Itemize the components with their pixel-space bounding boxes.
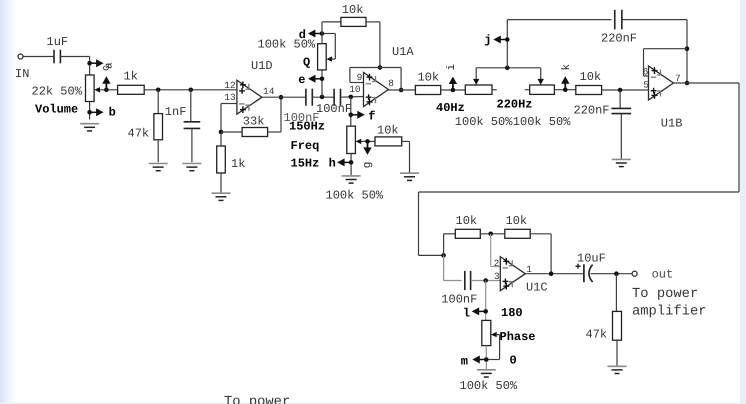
svg-text:amplifier: amplifier [632, 305, 707, 320]
svg-text:g: g [362, 162, 374, 169]
svg-text:U1C: U1C [526, 280, 548, 294]
svg-text:22k 50%: 22k 50% [32, 84, 83, 98]
svg-text:100k 50%: 100k 50% [258, 38, 316, 52]
node i [451, 88, 456, 93]
svg-text:1k: 1k [231, 157, 245, 171]
wire [615, 274, 617, 312]
capacitor 1nF [184, 121, 201, 123]
resistor 10k [375, 137, 402, 146]
node a [87, 61, 92, 66]
input terminal IN [18, 54, 23, 59]
capacitor 100nF [333, 89, 335, 106]
wire return [738, 83, 740, 192]
node l [483, 309, 488, 314]
wire output U1D [262, 96, 306, 98]
wire [554, 89, 575, 91]
node c [104, 88, 109, 93]
svg-text:IN: IN [15, 67, 29, 81]
svg-text:220nF: 220nF [601, 32, 637, 46]
wire [89, 57, 91, 76]
node [279, 95, 284, 100]
resistor 1k [217, 146, 226, 173]
svg-text:1uF: 1uF [47, 35, 69, 49]
resistor 10k [505, 229, 530, 238]
potentiometer 40Hz 100k 50% [465, 85, 492, 94]
svg-text:Q: Q [303, 55, 310, 69]
node [320, 95, 325, 100]
wire [268, 131, 281, 133]
wire [530, 233, 551, 235]
wire [620, 114, 622, 159]
svg-text:l: l [463, 306, 470, 320]
resistor 10k [576, 86, 602, 95]
node [618, 88, 623, 93]
svg-text:220nF: 220nF [574, 103, 610, 117]
svg-text:out: out [652, 268, 674, 282]
svg-text:180: 180 [501, 306, 523, 320]
resistor 10k [455, 229, 480, 238]
wire [443, 234, 445, 256]
wire [157, 140, 159, 162]
node d [320, 31, 325, 36]
svg-text:150Hz: 150Hz [289, 120, 325, 134]
node [549, 271, 554, 276]
node [685, 81, 690, 86]
wire [591, 273, 633, 275]
resistor 10k [415, 86, 440, 95]
node [488, 232, 493, 237]
svg-text:2: 2 [494, 258, 500, 269]
svg-text:10k: 10k [377, 124, 399, 138]
capacitor 1uF [53, 50, 55, 64]
resistor 1k [118, 85, 145, 94]
svg-text:10k: 10k [342, 3, 364, 17]
wire [280, 97, 282, 132]
node [399, 88, 404, 93]
ground [608, 366, 627, 373]
wire pin13 [221, 103, 237, 105]
svg-text:40Hz: 40Hz [436, 101, 465, 115]
svg-text:10k: 10k [506, 214, 528, 228]
capacitor 100nF [305, 89, 307, 106]
node g [365, 139, 370, 144]
wire feedback U1B [644, 75, 649, 77]
node b [87, 110, 92, 115]
resistor 33k [242, 128, 268, 137]
ground [149, 164, 168, 171]
svg-text:U1A: U1A [392, 45, 414, 59]
svg-text:100k 50%: 100k 50% [460, 379, 518, 393]
node [189, 88, 194, 93]
svg-text:13: 13 [224, 92, 236, 103]
wire [191, 128, 193, 162]
potentiometer Volume 22k 50% [86, 75, 95, 102]
node [156, 88, 161, 93]
ground [612, 159, 631, 166]
node f [349, 113, 354, 118]
svg-text:h: h [329, 156, 336, 170]
wire wiper [332, 58, 336, 60]
node m [484, 357, 489, 362]
wire [602, 89, 649, 91]
wire [190, 90, 192, 122]
wire [220, 132, 222, 146]
ground [212, 193, 231, 200]
ground [477, 370, 496, 377]
wire [441, 89, 466, 91]
svg-text:100k 50%: 100k 50% [326, 188, 384, 202]
capacitor 100nF [464, 271, 466, 290]
svg-text:c: c [102, 65, 113, 71]
wire top [507, 19, 611, 21]
svg-text:k: k [561, 64, 573, 71]
wire [485, 346, 487, 369]
svg-text:0: 0 [510, 353, 517, 367]
wire [350, 154, 352, 176]
node [483, 278, 488, 283]
svg-text:47k: 47k [128, 126, 150, 140]
potentiometer Freq 100k 50% [347, 126, 356, 153]
svg-text:10k: 10k [456, 214, 478, 228]
wire [100, 89, 118, 91]
wire [350, 97, 352, 126]
node [349, 95, 354, 100]
op-amp U1A [364, 73, 389, 107]
svg-text:To power: To power [224, 395, 290, 404]
svg-text:Freq: Freq [291, 139, 320, 153]
wire [506, 20, 508, 68]
potentiometer Q 100k 50% [318, 44, 327, 70]
node [614, 271, 619, 276]
svg-text:7: 7 [675, 73, 681, 84]
wire [443, 255, 445, 280]
node j [505, 37, 510, 42]
svg-text:1nF: 1nF [165, 105, 187, 119]
svg-text:8: 8 [388, 78, 394, 89]
wire [144, 89, 237, 91]
svg-text:100k 50%: 100k 50% [455, 115, 513, 129]
svg-text:14: 14 [263, 86, 275, 97]
wire [220, 173, 222, 193]
svg-text:j: j [484, 33, 491, 47]
wire [221, 131, 242, 133]
node k [563, 87, 568, 92]
wire [471, 280, 501, 282]
svg-text:10: 10 [349, 84, 361, 95]
svg-text:100nF: 100nF [316, 102, 352, 116]
wire [23, 56, 54, 58]
svg-text:220Hz: 220Hz [497, 97, 533, 111]
node [219, 130, 224, 135]
wire [220, 104, 222, 133]
svg-text:d: d [299, 28, 306, 42]
wire feedback U1A [350, 82, 364, 84]
svg-text:f: f [368, 109, 375, 123]
wire [157, 90, 159, 114]
ground [182, 164, 201, 171]
potentiometer 220Hz 100k 50% [530, 85, 555, 94]
svg-text:33k: 33k [243, 115, 265, 129]
svg-text:e: e [298, 73, 305, 87]
svg-text:b: b [109, 106, 116, 120]
potentiometer Phase 100k 50% [482, 320, 491, 345]
wire [60, 56, 89, 58]
wire [622, 19, 687, 21]
wire output U1A [389, 89, 416, 91]
wire wiper [361, 140, 375, 142]
node e [320, 77, 325, 82]
wire [312, 96, 334, 98]
node [505, 66, 510, 71]
svg-text:10uF: 10uF [577, 252, 606, 266]
wire [619, 90, 621, 109]
svg-text:U1D: U1D [251, 59, 273, 73]
svg-text:Volume: Volume [35, 102, 78, 116]
capacitor 10uF polarized [576, 264, 593, 283]
wire stub [492, 89, 497, 91]
svg-text:1k: 1k [124, 70, 138, 84]
wire stub [525, 89, 530, 91]
ground [80, 124, 99, 131]
capacitor 220nF [614, 10, 616, 30]
op-amp U1C [500, 257, 525, 291]
ground [342, 176, 361, 183]
svg-text:3: 3 [494, 271, 500, 282]
node [378, 65, 383, 70]
svg-text:12: 12 [224, 80, 236, 91]
svg-text:5: 5 [643, 79, 649, 90]
resistor 47k [613, 311, 622, 340]
wire [321, 34, 323, 44]
svg-text:m: m [461, 355, 468, 369]
wire [341, 96, 364, 99]
svg-text:10k: 10k [580, 70, 602, 84]
op-amp U1B [649, 66, 674, 100]
wire [485, 281, 487, 321]
svg-text:47k: 47k [586, 328, 608, 342]
wire [89, 102, 91, 120]
wire output U1B [674, 82, 739, 84]
svg-text:U1B: U1B [661, 116, 683, 130]
svg-text:To power: To power [632, 287, 698, 302]
wire wiper rail [475, 68, 477, 79]
node h [349, 160, 354, 165]
wire [480, 233, 505, 235]
capacitor 220nF [611, 107, 631, 109]
ground [400, 173, 419, 180]
svg-text:9: 9 [357, 72, 363, 83]
svg-text:Phase: Phase [500, 330, 536, 344]
output terminal out [632, 271, 637, 276]
wire [366, 21, 380, 23]
resistor 10k [341, 17, 366, 26]
wire [616, 340, 618, 365]
node [685, 46, 690, 51]
svg-text:15Hz: 15Hz [291, 156, 320, 170]
svg-text:i: i [446, 64, 458, 71]
resistor 47k [154, 114, 163, 140]
wire [321, 70, 323, 97]
svg-text:100k 50%: 100k 50% [513, 115, 571, 129]
op-amp U1D [237, 80, 262, 114]
wire [490, 234, 492, 267]
wire output U1C [526, 273, 584, 275]
svg-text:10k: 10k [418, 70, 440, 84]
wire [402, 140, 410, 142]
wire wiper [497, 334, 500, 336]
svg-text:100nF: 100nF [441, 293, 477, 307]
node A [441, 253, 446, 258]
